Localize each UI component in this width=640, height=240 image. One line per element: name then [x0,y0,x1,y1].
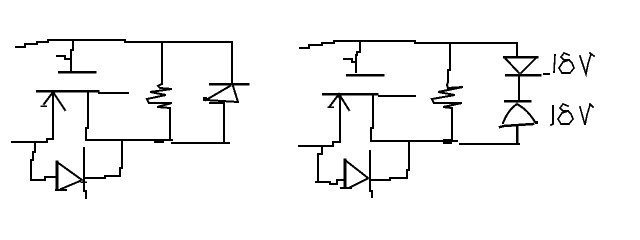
transistor Q1 gate lead [71,40,73,70]
transistor Q2 channel bar [323,94,415,96]
label 18V (lower) [551,104,593,125]
wire bottom rail right circuit [372,139,519,144]
transistor Q2 gate bar [347,74,383,77]
wire left drop to D3 anode [316,148,343,184]
wire top rail right circuit [300,41,517,48]
wire D1 cathode to bottom rail [81,141,122,182]
resistor R1 lead to bottom rail [169,108,171,140]
wire Q1 right lead down [86,93,88,140]
diode D3 triangle [341,160,368,188]
diode D2 lead from top rail [231,42,233,84]
resistor R1 lead from top [161,42,163,84]
transistor Q1 arrow [41,91,65,110]
transistor Q2 arrow [328,93,349,110]
diode D3 cathode bar [370,151,372,197]
resistor R2 lead from top [448,43,450,82]
diode D2 triangle [203,86,238,102]
zener D5 (bottom, pointing up) [500,101,538,127]
transistor Q2 gate lead [356,41,360,72]
transistor Q1 gate tick [57,56,70,59]
transistor Q2 gate tick [344,59,356,62]
wire Q2 right lead down [371,96,373,141]
wire left drop to D1 anode [31,144,56,180]
diode D2 cathode bar [210,83,248,86]
wire top rail left circuit [16,40,232,47]
diode D1 cathode bar [84,148,86,198]
wire bottom rail left circuit [87,139,229,143]
wire zener branch lead from top rail [516,43,518,57]
wire D2 anode to bottom rail [210,103,224,143]
zener D4 (top, pointing down) [504,57,540,75]
label 18V (upper) [544,53,594,74]
wire between zeners [518,76,520,101]
wire Q2 source lead down-left [299,97,340,146]
wire Q1 source lead down-left [12,95,53,142]
diode D1 triangle [56,162,82,190]
transistor Q1 gate bar [59,71,95,74]
wire D3 cathode to bottom rail [372,142,409,180]
transistor Q1 channel bar [37,91,128,93]
wire D5 anode to bottom rail [516,126,519,143]
resistor R2 lead to bottom rail [451,108,453,141]
resistor R2 zigzag [432,82,463,108]
resistor R1 zigzag [147,84,172,108]
